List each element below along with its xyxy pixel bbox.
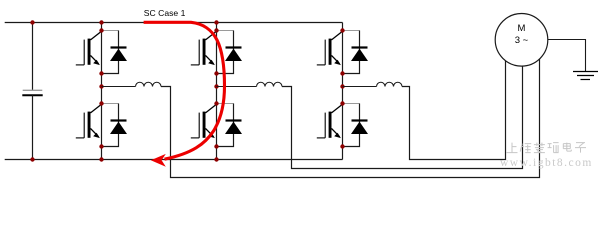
svg-text:SC Case 1: SC Case 1 xyxy=(144,8,186,18)
wire: DC-link capacitor branch top xyxy=(32,23,34,91)
junction dot: leg 1 high collector tap xyxy=(99,28,103,32)
junction dot: leg 2 high emitter node xyxy=(214,71,218,75)
junction dot: cap bottom / -bus xyxy=(30,157,34,161)
transistor Q1L (IGBT) xyxy=(76,104,102,138)
junction dot: leg 3 low emitter node xyxy=(340,144,344,148)
SC Case 1 fault-current path (red arrow) xyxy=(144,22,225,166)
bottom DC bus (-) xyxy=(5,159,343,161)
wire: diode branch of low IGBT leg 2 xyxy=(217,103,234,105)
wire: leg 2 vertical rail xyxy=(216,23,218,160)
transistor Q3L (IGBT) xyxy=(317,104,343,138)
wire: diode branch of high IGBT leg 1 xyxy=(102,30,119,32)
transistor Q3H (IGBT) xyxy=(317,31,343,65)
inductor L1 (phase choke) xyxy=(136,82,162,86)
diode D2H (freewheel, cathode up) xyxy=(225,48,242,62)
wire: diode branch of high IGBT leg 3 xyxy=(343,30,360,32)
junction dot: leg 1 on +bus xyxy=(99,20,103,24)
ground (earth symbol) xyxy=(573,72,598,80)
junction dot: leg 2 on -bus xyxy=(214,157,218,161)
wire: phase 1 from leg to inductor xyxy=(102,86,136,88)
wire: phase 3 from leg to inductor xyxy=(343,86,377,88)
junction dot: leg 2 low collector tap xyxy=(214,101,218,105)
junction dot: leg 2 phase output node xyxy=(214,84,218,88)
wire: leg 3 vertical rail xyxy=(342,23,344,160)
wire: diode branch of low IGBT leg 3 xyxy=(343,103,360,105)
wire: diode branch of low IGBT leg 1 xyxy=(102,103,119,105)
junction dot: leg 3 high emitter node xyxy=(340,71,344,75)
junction dot: leg 1 low emitter node xyxy=(99,144,103,148)
junction dot: leg 3 low collector tap xyxy=(340,101,344,105)
wire: motor star point to earth xyxy=(522,40,586,72)
svg-text:3 ~: 3 ~ xyxy=(515,35,529,46)
junction dot: leg 1 phase output node xyxy=(99,84,103,88)
svg-text:www.igbt8.com: www.igbt8.com xyxy=(500,157,593,169)
motor M (3-phase) xyxy=(495,14,548,67)
wire: phase 2 from leg to inductor xyxy=(217,86,257,88)
diode D1H (freewheel, cathode up) xyxy=(110,48,127,62)
transistor Q2H (IGBT) xyxy=(191,31,217,65)
watermark text (gray, bottom right) xyxy=(507,143,587,153)
inductor L3 (phase choke) xyxy=(377,82,403,86)
wire: DC-link capacitor branch bottom xyxy=(32,95,34,159)
junction dot: leg 2 low emitter node xyxy=(214,144,218,148)
wire: phase 3 run to motor xyxy=(402,40,506,160)
svg-text:M: M xyxy=(518,23,526,34)
diode D3H (freewheel, cathode up) xyxy=(351,48,368,62)
wire: leg 1 vertical rail xyxy=(101,23,103,160)
transistor Q1H (IGBT) xyxy=(76,31,102,65)
transistor Q2L (IGBT) xyxy=(191,104,217,138)
junction dot: leg 2 on +bus xyxy=(214,20,218,24)
wire: diode branch of high IGBT leg 2 xyxy=(217,30,234,32)
junction dot: leg 1 on -bus xyxy=(99,157,103,161)
junction dot: cap top / +bus xyxy=(30,20,34,24)
junction dot: leg 1 high emitter node xyxy=(99,71,103,75)
diode D3L (freewheel, cathode up) xyxy=(351,121,368,135)
diode D1L (freewheel, cathode up) xyxy=(110,121,127,135)
wire: phase 2 run to motor xyxy=(282,40,523,169)
capacitor C1 (DC link) xyxy=(22,90,42,95)
inductor L2 (phase choke) xyxy=(257,82,283,86)
top DC bus (+) xyxy=(5,22,343,24)
junction dot: leg 2 high collector tap xyxy=(214,28,218,32)
junction dot: leg 3 phase output node xyxy=(340,84,344,88)
junction dot: leg 3 high collector tap xyxy=(340,28,344,32)
wire: phase 1 run to motor xyxy=(161,40,540,178)
diode D2L (freewheel, cathode up) xyxy=(225,121,242,135)
junction dot: leg 1 low collector tap xyxy=(99,101,103,105)
